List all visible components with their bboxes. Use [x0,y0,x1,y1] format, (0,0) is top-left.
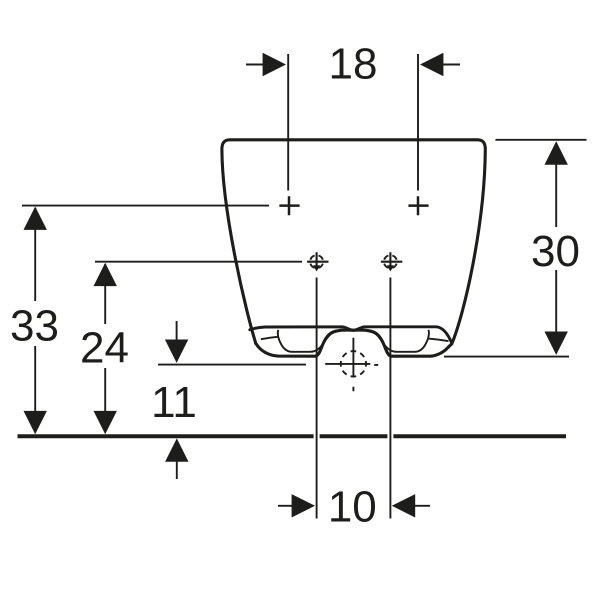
dim 10 left arrow [278,494,315,517]
witness line 10 left [316,278,318,519]
rim [250,327,452,343]
witness line 10 right [389,278,391,519]
extension line 24 [95,261,302,263]
dim line 24 [104,264,106,431]
svg-text:18: 18 [329,40,378,89]
witness line 18 left [287,54,289,191]
dim 10 right arrow [392,494,430,517]
inner left foot pad [278,330,337,352]
extension line 33 [22,205,269,207]
extension line 30 bottom [444,356,569,358]
svg-text:30: 30 [531,227,580,276]
body outline [222,140,485,344]
fixing cross left [279,196,299,215]
dim line 30 [555,143,557,353]
dim 33 arrows [24,207,47,435]
drain center line horizontal [325,364,378,365]
base bottom with arch [256,330,452,356]
svg-text:24: 24 [80,324,129,373]
crosshair fixing point right [381,252,402,271]
dim 24 arrows [94,263,117,435]
dim 18 right arrow [420,53,460,76]
dim 11 upper arrow [165,321,188,363]
svg-text:11: 11 [151,378,197,427]
fixing cross right [408,196,428,215]
dim line 33 [34,208,36,431]
drain outlet dashed circle [341,351,366,376]
extension line 11 [158,364,306,366]
svg-text:10: 10 [328,483,377,532]
inner right shelf line [429,339,449,342]
svg-text:33: 33 [10,302,59,351]
witness line 18 right [417,54,419,191]
extension line 30 top [496,139,587,141]
drain center line vertical [352,338,354,392]
inner left shelf line [261,337,278,339]
crosshair fixing point left [307,252,328,271]
dim 30 arrows [545,141,568,355]
floor line [18,434,567,438]
dim 18 left arrow [246,53,286,76]
inner right foot pad [370,330,429,352]
dim 11 lower arrow [165,438,188,479]
